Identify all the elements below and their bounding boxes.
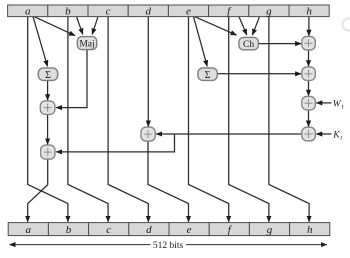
wire: b vertical then shift to bottom c: [68, 17, 108, 222]
svg-text:512 bits: 512 bits: [153, 241, 184, 251]
wire: e vertical then shift to bottom f: [189, 17, 229, 222]
svg-text:K: K: [332, 131, 340, 141]
svg-text:a: a: [25, 6, 31, 18]
register box c (top): [88, 5, 128, 17]
wire: adder U4 to adder U5: [308, 80, 310, 95]
register box b (bottom): [48, 223, 88, 236]
adder U6 (right column 4): [302, 127, 316, 141]
wire: Sigma0 output into adder A1: [47, 80, 49, 100]
wire: adder A3 output shift to bottom e: [148, 141, 189, 221]
wire: adder U3 to adder U4: [308, 50, 310, 66]
wire: adder A1 output into adder A2: [47, 114, 49, 144]
svg-text:b: b: [65, 6, 71, 18]
svg-text:a: a: [26, 224, 32, 236]
register box h (top): [289, 5, 329, 17]
wire: f to Ch: [239, 17, 247, 35]
wire: Wt input into adder U5: [316, 102, 331, 104]
wire: Maj output down then left into adder A1: [56, 50, 87, 108]
svg-text:d: d: [146, 6, 152, 18]
wire: adder A2 output shift to bottom a: [28, 159, 48, 221]
svg-text:t: t: [340, 135, 342, 142]
adder U5 (right column 3): [302, 96, 316, 110]
svg-text:Σ: Σ: [205, 70, 211, 81]
function block Sigma0: [38, 68, 57, 81]
wire: T1 output of adder U6 into middle adder A3: [156, 133, 302, 135]
svg-text:e: e: [186, 6, 191, 18]
svg-text:h: h: [307, 224, 313, 236]
svg-text:g: g: [267, 224, 273, 236]
register box f (bottom): [209, 223, 249, 236]
wire: g vertical then shift to bottom h: [269, 17, 309, 222]
wire: a to Maj: [34, 17, 75, 36]
wire: b to Maj: [77, 17, 83, 35]
wire: c vertical then shift to bottom d: [108, 17, 148, 222]
svg-text:e: e: [187, 224, 192, 236]
wire: g to Ch: [252, 17, 259, 35]
wire: a to Sigma0: [33, 17, 48, 67]
512 bits dimension line: [10, 241, 327, 251]
wire: e to Sigma1: [194, 17, 208, 67]
function block Maj: [77, 37, 96, 50]
bottom register row: [8, 223, 330, 236]
svg-text:Σ: Σ: [45, 70, 51, 81]
register box f (top): [209, 5, 249, 17]
wire: f vertical then shift to bottom g: [229, 17, 269, 222]
wire: c to Maj: [92, 17, 98, 35]
register box h (bottom): [290, 223, 330, 236]
svg-text:c: c: [106, 6, 111, 18]
svg-text:Maj: Maj: [79, 40, 94, 50]
svg-text:c: c: [106, 224, 111, 236]
label Wt: [333, 99, 344, 110]
function block Sigma1: [198, 68, 217, 81]
register box d (top): [128, 5, 168, 17]
wire: Kt input into adder U6: [316, 133, 331, 135]
register box g (bottom): [249, 223, 289, 236]
svg-text:d: d: [146, 224, 152, 236]
svg-text:b: b: [66, 224, 72, 236]
wire: adder U5 to adder U6: [308, 110, 310, 127]
wire: e to Ch: [195, 17, 237, 35]
adder U4 (right column 2): [302, 67, 316, 81]
label Kt: [332, 131, 342, 142]
wire: h vertical into adder U3: [308, 17, 310, 36]
register box a (top): [8, 5, 48, 17]
function block Ch: [239, 37, 258, 50]
register box c (bottom): [89, 223, 129, 236]
wire: a vertical then shift to bottom b: [28, 17, 68, 222]
register box g (top): [249, 5, 289, 17]
wire: Ch output into adder U3: [258, 43, 301, 45]
top register row: [8, 5, 330, 17]
svg-text:h: h: [306, 6, 312, 18]
adder A1 (left top plus): [40, 101, 55, 115]
svg-text:W: W: [333, 99, 342, 109]
register box b (top): [48, 5, 88, 17]
register box e (bottom): [169, 223, 209, 236]
register box d (bottom): [129, 223, 169, 236]
adder A3 (middle plus): [141, 127, 155, 141]
svg-text:t: t: [342, 103, 344, 110]
wire: d vertical into middle adder: [147, 17, 149, 127]
wire: Sigma1 output into adder U4: [217, 73, 301, 75]
svg-text:g: g: [266, 6, 272, 18]
register box e (top): [168, 5, 208, 17]
wire: T1 branch down and left into adder A2: [56, 134, 174, 152]
svg-text:Ch: Ch: [243, 40, 254, 50]
adder U3 (right column 1): [302, 36, 316, 50]
adder A2 (left bottom plus): [41, 145, 55, 159]
register box a (bottom): [8, 223, 48, 236]
watermark ring artifact top right: [343, 19, 350, 31]
